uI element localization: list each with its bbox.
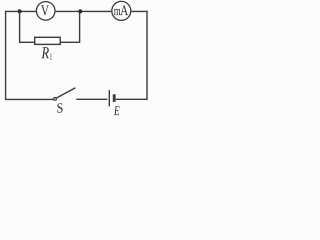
switch S pivot contact bbox=[54, 98, 57, 101]
label E bbox=[114, 106, 120, 115]
wire resistor up to top wire bbox=[60, 11, 79, 42]
battery E short thick plate bbox=[113, 94, 116, 102]
label A bbox=[120, 5, 128, 15]
label R subscript 1 bbox=[50, 54, 52, 60]
wire switch to battery bbox=[76, 98, 107, 100]
wire right side bbox=[146, 11, 148, 100]
junction node right bbox=[78, 9, 82, 13]
milliammeter circle bbox=[112, 1, 131, 20]
label S bbox=[57, 103, 62, 112]
wire voltmeter to ammeter bbox=[56, 10, 112, 12]
wire left side bbox=[5, 11, 7, 100]
wire ammeter to top-right corner bbox=[131, 10, 147, 12]
battery E long plate bbox=[108, 90, 110, 106]
resistor R1 body bbox=[35, 37, 61, 44]
wire top-left to voltmeter bbox=[6, 10, 36, 12]
voltmeter circle bbox=[36, 2, 55, 21]
label V bbox=[41, 5, 49, 15]
wire battery to bottom-right corner bbox=[116, 98, 147, 100]
wire branch down to resistor bbox=[20, 11, 35, 42]
switch S blade bbox=[57, 88, 76, 98]
label R bbox=[41, 47, 48, 58]
wire bottom-left to switch bbox=[6, 98, 54, 100]
junction node left bbox=[18, 9, 22, 13]
label m bbox=[114, 9, 121, 15]
